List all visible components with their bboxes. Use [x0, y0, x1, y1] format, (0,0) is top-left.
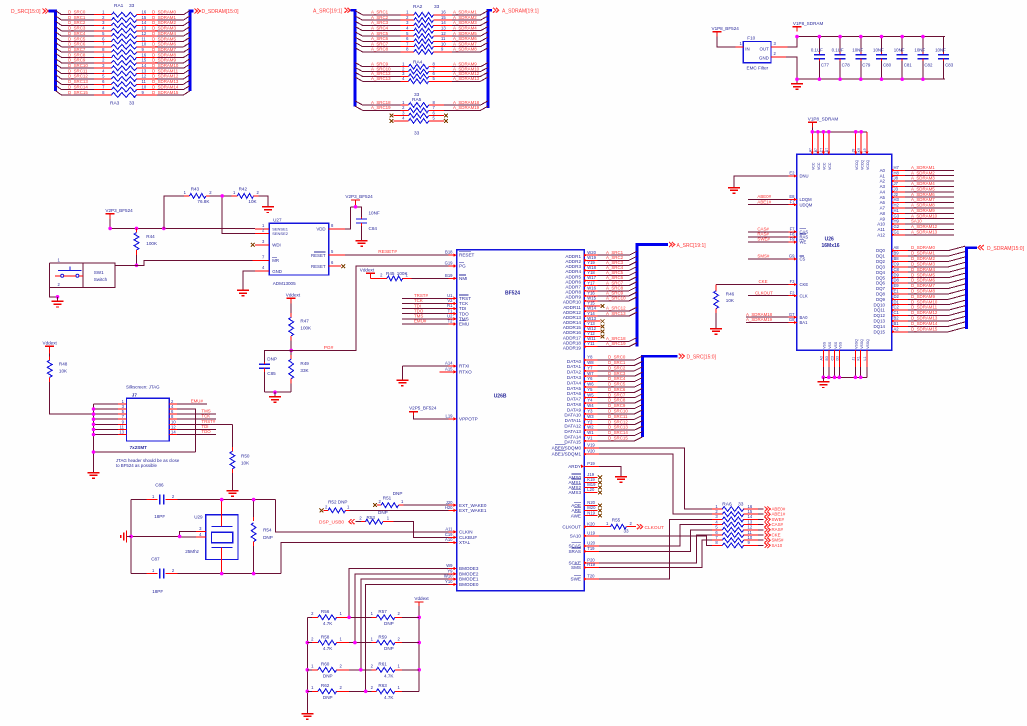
wire TRST# from J7 to R50 — [177, 419, 232, 425]
svg-text:R60: R60 — [321, 662, 330, 667]
pin C1 DQ12 of U26 (D_SDRAM12) — [874, 310, 965, 318]
svg-text:4.7K: 4.7K — [323, 621, 333, 626]
svg-text:R54: R54 — [263, 528, 272, 533]
svg-text:D_SRC8: D_SRC8 — [68, 52, 86, 57]
svg-text:ABE1#: ABE1# — [757, 199, 771, 204]
svg-text:A5: A5 — [880, 195, 886, 200]
wire R51 to EXT_WAKE0 — [404, 504, 449, 506]
wire crystal case pins to ground bar — [131, 535, 180, 537]
power Vddext (R48) — [43, 341, 58, 352]
pin W6 DATA5 of U26B — [567, 382, 598, 391]
pin Y3 DATA10 of U26B — [564, 409, 597, 418]
wire A_SRC5 to bus — [598, 270, 638, 275]
wire R62-R63 row — [349, 690, 371, 692]
svg-text:D_SDRAM5: D_SDRAM5 — [152, 36, 176, 41]
svg-text:L1: L1 — [863, 357, 867, 361]
pin W17 ADDR6 of U26B — [565, 275, 597, 284]
pin Y18 ADDR5 of U26B — [565, 270, 597, 279]
pin W19 ADDR2 of U26B — [565, 255, 597, 264]
resistor RA1.6 — [94, 36, 157, 44]
resistor RA4.3 — [401, 71, 452, 79]
svg-text:SA10: SA10 — [911, 219, 922, 224]
svg-text:SMS: SMS — [571, 565, 581, 570]
pin W20 ADDR1 of U26B — [565, 250, 597, 259]
svg-text:L9: L9 — [863, 148, 867, 152]
wire PG# to U26B PG pin — [291, 266, 448, 350]
svg-text:100K: 100K — [397, 271, 409, 276]
pin D9 DQ5 of U26 (D_SDRAM5) — [876, 272, 965, 280]
svg-text:VSS: VSS — [823, 341, 827, 349]
wire BMODE left ground column — [306, 617, 308, 709]
svg-text:VCCQ: VCCQ — [866, 160, 870, 170]
svg-text:DATA7: DATA7 — [567, 397, 582, 402]
wire R53 to CLKBUF — [394, 522, 449, 538]
wire A_SDRAM5 to bus — [452, 31, 488, 36]
svg-text:ADDR19: ADDR19 — [563, 345, 582, 350]
wire A_SRC6 to bus — [598, 275, 638, 280]
svg-text:B18: B18 — [445, 250, 453, 255]
svg-text:15: 15 — [142, 58, 147, 63]
wire BMODE1 to pull resistor row — [361, 579, 449, 670]
pin B2 DQ13 of U26 (D_SDRAM13) — [874, 316, 965, 324]
pin J9 VCCQ of U26 — [852, 130, 859, 170]
svg-text:DATA1: DATA1 — [567, 364, 582, 369]
resistor RA2.7 — [401, 41, 452, 49]
wire D_SRC6 to bus — [598, 387, 643, 392]
wire crystal top rail (XTAL1) — [167, 500, 448, 532]
wire D_SDRAM10 to bus — [152, 63, 190, 68]
svg-text:A_SDRAM12: A_SDRAM12 — [911, 224, 938, 229]
wire D_SRC9 to bus — [598, 403, 643, 408]
svg-text:11: 11 — [142, 36, 147, 41]
svg-text:W5: W5 — [587, 392, 594, 397]
resistor R57 DNP — [371, 609, 420, 626]
wire RAS# output — [758, 527, 784, 532]
svg-text:A0: A0 — [880, 168, 886, 173]
svg-text:D_SDRAM2: D_SDRAM2 — [911, 256, 935, 261]
wire A_SDRAM10 to bus — [452, 66, 488, 71]
svg-text:D_SDRAM1: D_SDRAM1 — [152, 15, 176, 20]
svg-text:U29: U29 — [194, 515, 203, 520]
svg-text:DATA2: DATA2 — [567, 370, 582, 375]
wire D_SRC8 from bus to RA pin — [56, 52, 95, 57]
svg-text:IN: IN — [745, 47, 749, 52]
svg-text:H1: H1 — [894, 208, 900, 213]
wire A_SRC19 to bus — [598, 341, 638, 346]
wire D_SDRAM3 to bus — [152, 26, 190, 31]
svg-text:A_SDRAM3: A_SDRAM3 — [911, 176, 935, 181]
wire D_SRC3 from bus to RA pin — [56, 26, 95, 31]
wire A_SRC4 from bus — [355, 26, 401, 31]
svg-text:U26B: U26B — [494, 394, 507, 400]
wire D_SRC7 from bus to RA pin — [56, 47, 95, 52]
svg-text:R57: R57 — [378, 609, 387, 614]
node D_SRC[15:0] bus flag (left) — [11, 9, 48, 16]
svg-text:12: 12 — [142, 31, 147, 36]
resistor RA1.5 — [94, 31, 157, 39]
svg-text:DATA4: DATA4 — [567, 380, 582, 385]
wire VSS rail below U26 — [823, 376, 867, 378]
svg-text:DQ1: DQ1 — [876, 254, 886, 259]
svg-text:A_SDRAM18: A_SDRAM18 — [453, 100, 480, 105]
svg-text:0.1UF: 0.1UF — [832, 47, 844, 52]
svg-text:16: 16 — [142, 10, 147, 15]
svg-text:D_SRC6: D_SRC6 — [608, 387, 626, 392]
svg-text:DATA5: DATA5 — [567, 386, 582, 391]
svg-text:13: 13 — [142, 68, 147, 73]
pin B9 DQ1 of U26 (D_SDRAM1) — [876, 251, 965, 259]
svg-text:RTXI: RTXI — [459, 364, 469, 369]
svg-text:4.7K: 4.7K — [323, 646, 333, 651]
pin C8 DQ4 of U26 (D_SDRAM4) — [876, 267, 965, 275]
pin V19 ABE0/SDQM0 of U26B — [552, 443, 599, 451]
resistor RA4.1 — [401, 62, 452, 70]
svg-text:R43: R43 — [191, 186, 200, 191]
pin Y8 DATA0 of U26B — [567, 355, 598, 364]
svg-text:DATA13: DATA13 — [564, 429, 581, 434]
svg-text:D_SDRAM11: D_SDRAM11 — [152, 68, 179, 73]
svg-text:C3: C3 — [831, 356, 835, 361]
svg-text:RA3: RA3 — [110, 101, 120, 107]
svg-text:D_SDRAM4: D_SDRAM4 — [152, 31, 176, 36]
svg-text:10NF: 10NF — [852, 47, 863, 52]
svg-text:E1: E1 — [894, 288, 900, 293]
svg-text:C84: C84 — [369, 226, 378, 231]
resistor RA6.4 — [712, 519, 758, 527]
svg-text:D_SRC9: D_SRC9 — [608, 403, 626, 408]
svg-text:F3: F3 — [790, 279, 796, 284]
pin Y11 ADDR19 of U26B — [563, 341, 598, 350]
pin D3 VSS of U26 — [835, 341, 842, 379]
wire ABE0# output — [758, 506, 786, 511]
pin W8 DATA1 of U26B — [567, 360, 598, 369]
svg-text:R63: R63 — [378, 683, 387, 688]
svg-text:D_SRC[15:0]: D_SRC[15:0] — [687, 355, 717, 361]
resistor RA3.2 — [94, 58, 157, 66]
wire D_SRC7 to bus — [598, 392, 643, 397]
capacitor C83 (10NF) — [935, 37, 954, 80]
resistor RA2.8 — [401, 47, 452, 55]
svg-text:VDD: VDD — [316, 227, 325, 232]
svg-text:A_SDRAM4: A_SDRAM4 — [911, 181, 935, 186]
resistor RA6.3 — [712, 514, 758, 522]
svg-text:H2: H2 — [894, 203, 900, 208]
pin E9 DQ7 of U26 (D_SDRAM7) — [876, 283, 965, 291]
wire A_SRC5 from bus — [355, 31, 401, 36]
svg-text:D_SRC0: D_SRC0 — [68, 10, 86, 15]
resistor R52 DNP (EXT_WAKE1) — [320, 499, 350, 512]
svg-text:A12: A12 — [877, 232, 885, 237]
svg-text:D_SDRAM9: D_SDRAM9 — [152, 58, 176, 63]
wire A_SDRAM4 to bus — [452, 26, 488, 31]
wire A_SRC9 from bus — [355, 62, 401, 67]
svg-text:A9: A9 — [880, 216, 886, 221]
svg-text:DQ6: DQ6 — [876, 281, 886, 286]
resistor R56 4.7K — [307, 609, 349, 626]
no-connect X on RA5 input — [390, 119, 409, 123]
pin H20 EXT_WAKE1 of U26B — [445, 505, 487, 513]
wire R43-R42 junction to SENSE2 — [209, 196, 255, 234]
resistor RA1.8 — [94, 47, 157, 55]
svg-text:Silkscreen: JTAG: Silkscreen: JTAG — [126, 385, 160, 390]
pin G7 BA0 of U26 (A_SDRAM18) — [746, 312, 808, 320]
pin Y10 BMODE0 of U26B — [445, 579, 479, 587]
wire D_SRC4 from bus to RA pin — [56, 31, 95, 36]
pin 1 of J7 — [94, 399, 127, 404]
svg-text:Y11: Y11 — [587, 341, 595, 346]
pin C7 VCC of U26 — [819, 130, 826, 170]
svg-text:10NF: 10NF — [914, 47, 925, 52]
wire A_SDRAM13 to bus — [452, 76, 488, 81]
pin Y5 DATA6 of U26B — [567, 387, 598, 396]
pin W14 ADDR12 of U26B — [563, 306, 598, 315]
svg-text:DNP: DNP — [384, 621, 394, 626]
no-connect X on ADDR15 — [598, 324, 605, 328]
pin P20 SCKE of U26B — [568, 557, 599, 565]
svg-text:SENSE2: SENSE2 — [272, 231, 289, 236]
resistor RA2.6 — [401, 36, 452, 44]
resistor array RA2 label (33) — [413, 4, 440, 10]
svg-text:V20: V20 — [587, 449, 595, 454]
svg-text:A_SRC13: A_SRC13 — [606, 311, 626, 316]
pin W11 ADDR18 of U26B — [563, 336, 598, 345]
svg-text:100K: 100K — [300, 326, 312, 331]
svg-text:AMS3: AMS3 — [568, 490, 581, 495]
svg-text:A14: A14 — [445, 361, 453, 366]
wire A_SRC12 from bus — [355, 71, 401, 76]
pin R1 TDI of U26B (TDI) — [402, 303, 466, 311]
wire TCK from J7 — [177, 414, 216, 420]
wire BMODE0 to pull resistor row — [366, 584, 449, 691]
svg-text:V1P8_SDRAM: V1P8_SDRAM — [808, 117, 839, 122]
svg-text:A_SRC[19:1]: A_SRC[19:1] — [313, 8, 343, 14]
no-connect X on ADDR14 — [598, 319, 605, 323]
pin 3 of J7 — [94, 404, 127, 409]
bus D_SRC[15:0] at U26B — [643, 356, 678, 437]
svg-text:A_SRC2: A_SRC2 — [371, 15, 389, 20]
pin B8 DQ2 of U26 (D_SDRAM2) — [876, 256, 965, 264]
svg-text:Vddext: Vddext — [43, 341, 58, 346]
wire D_SDRAM6 to bus — [152, 42, 190, 47]
svg-text:G19: G19 — [445, 261, 454, 266]
svg-text:J3: J3 — [894, 186, 899, 191]
wire V2P3 rail to SENSE1 — [110, 219, 255, 229]
pin G2 A11 of U26 (A_SDRAM12) — [878, 224, 955, 232]
svg-text:B3: B3 — [825, 356, 829, 360]
bus A_SRC left vertical — [351, 10, 356, 106]
svg-text:10K: 10K — [248, 199, 257, 204]
svg-text:33: 33 — [624, 529, 630, 534]
svg-text:D_SDRAM10: D_SDRAM10 — [911, 299, 938, 304]
pin W16 ADDR8 of U26B — [565, 285, 597, 294]
pin G9 CS of U26 (SMS#) — [748, 254, 806, 262]
node A_SDRAM[19:1] bus flag (right) — [493, 8, 539, 15]
svg-text:SA10: SA10 — [570, 533, 582, 538]
svg-text:H9: H9 — [894, 219, 900, 224]
node PG# — [324, 345, 334, 351]
wire D_SRC15 from bus to RA pin — [56, 90, 95, 95]
svg-text:A_SDRAM13: A_SDRAM13 — [453, 76, 480, 81]
svg-text:DATA15: DATA15 — [564, 440, 581, 445]
svg-text:A_SDRAM9: A_SDRAM9 — [911, 208, 935, 213]
wire D_SRC11 to bus — [598, 414, 643, 419]
wire SMS to RA6 — [599, 540, 712, 567]
svg-text:D_SRC5: D_SRC5 — [608, 382, 626, 387]
svg-text:13: 13 — [441, 26, 446, 31]
svg-text:A_SRC6: A_SRC6 — [371, 36, 389, 41]
pin L1 VSSQ of U26 — [863, 339, 870, 378]
pin T1 TDO of U26B (TDO) — [402, 308, 469, 316]
svg-text:Vddext: Vddext — [286, 292, 301, 297]
bus D_SDRAM[15:0] right vertical — [190, 11, 194, 91]
svg-text:G3: G3 — [894, 213, 900, 218]
wire A_SRC13 to bus — [598, 311, 638, 316]
svg-text:T19: T19 — [587, 546, 595, 551]
svg-text:J7: J7 — [132, 393, 138, 398]
svg-text:D_SDRAM8: D_SDRAM8 — [911, 288, 935, 293]
resistor R42 10K — [232, 186, 260, 203]
svg-text:D_SDRAM3: D_SDRAM3 — [911, 261, 935, 266]
ground at cap bank — [791, 79, 803, 89]
svg-text:7x2SMT: 7x2SMT — [130, 445, 148, 450]
pin 8 of J7 — [169, 414, 177, 419]
svg-text:D_SRC1: D_SRC1 — [608, 360, 626, 365]
svg-text:VSSQ: VSSQ — [855, 339, 859, 349]
svg-text:EMU#: EMU# — [414, 319, 427, 324]
svg-text:NMI: NMI — [459, 276, 467, 281]
node D_SDRAM[15:0] bus flag (right) — [195, 9, 240, 16]
svg-text:DNP: DNP — [323, 673, 333, 678]
note JTAG placement — [116, 458, 180, 468]
svg-text:A2: A2 — [894, 326, 900, 331]
wire D_SDRAM0 to bus — [152, 10, 190, 15]
svg-text:WE: WE — [800, 240, 807, 245]
svg-text:L19: L19 — [446, 413, 454, 418]
svg-text:A_SRC7: A_SRC7 — [371, 41, 389, 46]
svg-text:A_SDRAM8: A_SDRAM8 — [911, 203, 935, 208]
svg-text:W6: W6 — [587, 382, 594, 387]
svg-text:DNP: DNP — [267, 357, 277, 362]
svg-text:R47: R47 — [300, 319, 309, 324]
svg-text:DATA11: DATA11 — [565, 418, 582, 423]
wire A_SRC2 from bus — [355, 15, 401, 20]
svg-text:B7: B7 — [814, 148, 818, 152]
wire D_SDRAM8 to bus — [152, 52, 190, 57]
capacitor C79 (10NF) — [852, 35, 871, 81]
svg-text:W8: W8 — [587, 360, 594, 365]
svg-text:D2: D2 — [894, 294, 900, 299]
svg-text:DQ2: DQ2 — [876, 259, 886, 264]
wire A_SDRAM1 to bus — [452, 10, 488, 15]
svg-text:DNP: DNP — [393, 491, 403, 496]
wire D_SDRAM11 to bus — [152, 68, 190, 73]
pin 5 of J7 — [94, 409, 127, 414]
pin E8 LDQM of U26 (ABE0#) — [748, 194, 812, 202]
svg-text:11: 11 — [441, 36, 446, 41]
pin F9 WE of U26 (SWE#) — [748, 237, 806, 245]
svg-text:E2: E2 — [789, 171, 795, 176]
svg-text:D8: D8 — [894, 278, 900, 283]
svg-text:SW1: SW1 — [94, 270, 104, 275]
pin Y15 ADDR11 of U26B — [563, 301, 597, 310]
svg-text:W7: W7 — [587, 371, 594, 376]
node D_SDRAM[15:0] flag at U26 — [978, 245, 1025, 252]
svg-text:DATA3: DATA3 — [567, 375, 582, 380]
pin U19 SA10 of U26B — [570, 530, 599, 538]
resistor R62 DNP — [307, 683, 349, 700]
svg-text:11: 11 — [142, 79, 147, 84]
svg-text:A_SDRAM1: A_SDRAM1 — [453, 10, 477, 15]
node A_SRC[19:1] bus flag (left) — [313, 8, 350, 15]
switch SW1 — [55, 263, 115, 288]
wire J7 pin4 to ground bar — [177, 409, 196, 452]
pin W3 DATA11 of U26B — [565, 414, 598, 423]
no-connect X on U27 WDI — [251, 243, 255, 247]
pin W1 DATA14 of U26B — [564, 430, 597, 439]
svg-text:13: 13 — [142, 26, 147, 31]
pin 11 of J7 — [94, 424, 127, 429]
wire D_SDRAM12 to bus — [152, 74, 190, 79]
svg-text:VCCQ: VCCQ — [855, 160, 859, 170]
svg-text:F1: F1 — [790, 199, 796, 204]
wire ABE0 to RA6.1 — [599, 448, 712, 509]
pin Y14 ADDR13 of U26B — [563, 311, 598, 320]
svg-text:BA1: BA1 — [800, 320, 809, 325]
svg-text:A_SRC8: A_SRC8 — [371, 47, 389, 52]
ground at R46 — [710, 324, 722, 334]
wire D_SRC2 to bus — [598, 365, 643, 370]
svg-text:R49: R49 — [300, 361, 309, 366]
svg-text:SMS#: SMS# — [757, 254, 770, 259]
pin A8 DQ0 of U26 (D_SDRAM0) — [876, 245, 965, 253]
resistor R50 10K (TRST pulldown) — [230, 424, 250, 486]
svg-text:D_SRC12: D_SRC12 — [608, 419, 628, 424]
pin D8 DQ6 of U26 (D_SDRAM6) — [876, 278, 965, 286]
wire A_SDRAM9 to bus — [452, 62, 488, 67]
pin Y16 ADDR9 of U26B — [565, 290, 597, 299]
wire D_SRC12 to bus — [598, 419, 643, 424]
svg-text:T2: T2 — [448, 319, 454, 324]
pin N20 AOE of U26B (no connect) — [571, 500, 602, 508]
svg-text:C7: C7 — [819, 148, 823, 153]
svg-text:XTAL: XTAL — [459, 540, 471, 545]
svg-text:E9: E9 — [894, 283, 900, 288]
pin H2 A7 of U26 (A_SDRAM8) — [880, 203, 954, 211]
wire D_SRC10 to bus — [598, 409, 643, 414]
pin E2 DNU of U26 — [789, 171, 809, 179]
svg-text:VPPOTP: VPPOTP — [459, 416, 478, 421]
wire TDO from J7 — [177, 429, 216, 435]
svg-text:W3: W3 — [587, 414, 594, 419]
wire A_SRC7 to bus — [598, 280, 638, 285]
wire SW1 pin1 bracket — [49, 257, 83, 296]
svg-text:D3: D3 — [835, 356, 839, 361]
svg-text:C78: C78 — [842, 63, 851, 68]
svg-text:D_SDRAM7: D_SDRAM7 — [911, 283, 935, 288]
svg-text:D_SRC13: D_SRC13 — [608, 425, 628, 430]
capacitor C87 18PF — [146, 556, 177, 594]
svg-text:D_SDRAM13: D_SDRAM13 — [152, 79, 179, 84]
pin G19 PG of U26B — [445, 261, 466, 269]
wire J7 odd-pin ground bar — [94, 404, 196, 468]
pin J2 A5 of U26 (A_SDRAM6) — [880, 192, 954, 200]
no-connect X on ADDR17 — [598, 335, 605, 339]
capacitor C86 18PF — [146, 482, 177, 519]
pin K9 VCCQ of U26 — [857, 130, 864, 170]
svg-text:100K: 100K — [146, 241, 158, 246]
wire D_SDRAM15 to bus — [152, 90, 190, 95]
no-connect X on RA5 output — [444, 119, 448, 123]
